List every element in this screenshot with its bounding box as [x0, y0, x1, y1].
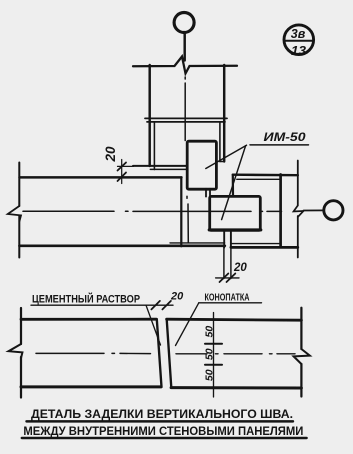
title underline 2	[22, 437, 307, 439]
left exit line outer	[133, 165, 188, 167]
section marker circle top	[174, 13, 194, 33]
seam between keys left	[205, 189, 207, 197]
left wall end face	[180, 177, 182, 246]
panel joint double line upper	[145, 117, 227, 119]
leader cement to seam	[146, 305, 161, 345]
horizontal centerline dash-dot	[23, 210, 282, 212]
upper panel left face	[148, 65, 150, 166]
svg-text:13: 13	[291, 43, 307, 58]
right wall top inner line	[237, 178, 280, 180]
konopatka underline	[199, 302, 262, 304]
left wall top edge	[20, 176, 182, 178]
left cut line	[18, 163, 20, 207]
dim 20 seam tick 2	[162, 301, 171, 310]
lower shell left inner face	[153, 122, 155, 170]
band bottom edge right	[171, 386, 301, 389]
marker 3v/13 circle	[284, 25, 314, 55]
vertical seam below R2 right	[230, 230, 232, 247]
lower shell right inner face	[219, 122, 221, 162]
upper panel right face	[223, 65, 225, 162]
right break zigzag with leader	[294, 206, 304, 218]
R2 thick bottom	[209, 228, 261, 231]
anchor key R1 (vertical)	[187, 141, 216, 189]
right wall end face	[279, 175, 282, 247]
leader 1 to R1	[206, 145, 247, 168]
seam between keys right	[209, 189, 211, 197]
svg-text:ДЕТАЛЬ ЗАДЕЛКИ ВЕРТИКАЛЬНОГО Ш: ДЕТАЛЬ ЗАДЕЛКИ ВЕРТИКАЛЬНОГО ШВА.	[31, 407, 293, 421]
dimension 20 bottom: tick 1	[220, 274, 229, 283]
left break zigzag	[8, 206, 21, 221]
right inner cap	[220, 161, 224, 163]
left wall bottom inner line	[170, 242, 225, 244]
leader 2 to R2	[222, 146, 246, 220]
dimension 20 bottom: dimension line	[216, 277, 239, 279]
dimension 20 bottom: tick 2	[227, 274, 236, 283]
band top edge right	[167, 319, 302, 320]
anchor key R2 (horizontal)	[210, 196, 261, 230]
top break line of upper panel	[133, 57, 237, 74]
svg-text:20: 20	[103, 146, 118, 163]
left wall bottom edge	[20, 244, 225, 247]
text underline / dim line cement	[31, 304, 173, 306]
dimension 20 left: tick 1	[118, 163, 127, 171]
band top edge left	[21, 318, 156, 321]
svg-text:50: 50	[203, 326, 215, 338]
band right cut line	[300, 308, 302, 349]
stem from top circle	[183, 33, 185, 61]
leader to right circle	[304, 209, 325, 211]
seam line right	[167, 319, 172, 387]
vertical seam below R2 left	[223, 230, 225, 247]
dimension 20 left: tick 2	[118, 173, 127, 182]
svg-text:50: 50	[203, 369, 215, 381]
svg-text:ИМ-50: ИМ-50	[264, 130, 306, 144]
band bottom edge left	[21, 385, 161, 388]
dimension 20 left: dimension line	[121, 160, 123, 184]
band right break zigzag	[294, 349, 310, 364]
dimension 20 left: extension line	[118, 165, 134, 167]
right cut line	[297, 161, 299, 206]
svg-text:3в: 3в	[291, 26, 306, 41]
left exit line inner	[150, 168, 187, 170]
right wall bottom inner line	[231, 243, 280, 245]
svg-text:КОНОПАТКА: КОНОПАТКА	[205, 292, 250, 303]
title underline 1	[27, 420, 294, 422]
band left break zigzag	[9, 344, 23, 358]
vertical dim tick 1	[205, 343, 222, 345]
seam line left	[157, 319, 162, 387]
dim 20 seam tick 1	[151, 301, 160, 310]
band left cut line	[20, 308, 22, 344]
svg-text:20: 20	[233, 262, 247, 274]
right wall top edge	[233, 173, 298, 176]
vertical dim line	[213, 313, 215, 398]
leader underline IM-50	[250, 144, 309, 146]
panel joint double line lower	[147, 121, 225, 123]
vertical dim tick 2	[205, 364, 222, 366]
konopatka leader	[176, 303, 199, 346]
band centerline dash-dot	[36, 352, 295, 354]
svg-text:ЦЕМЕНТНЫЙ РАСТВОР: ЦЕМЕНТНЫЙ РАСТВОР	[32, 293, 140, 306]
right wall bottom edge	[231, 246, 298, 249]
svg-text:МЕЖДУ ВНУТРЕННИМИ СТЕНОВЫМИ ПА: МЕЖДУ ВНУТРЕННИМИ СТЕНОВЫМИ ПАНЕЛЯМИ	[23, 426, 303, 438]
svg-text:50: 50	[203, 348, 215, 360]
vertical centerline dash-dot	[185, 77, 188, 243]
section marker circle right	[324, 201, 343, 220]
right wall left end upper	[232, 175, 234, 197]
dimension 20 bottom: extension lines	[223, 248, 225, 279]
svg-text:20: 20	[170, 291, 184, 303]
